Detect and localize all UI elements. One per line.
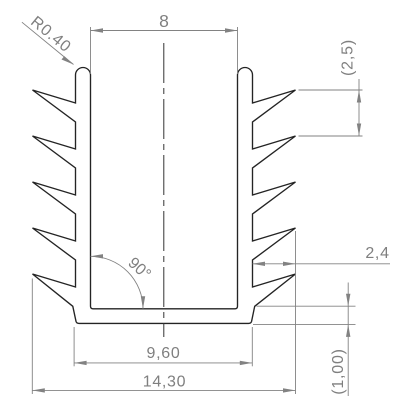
dimension (2,5) arrow down <box>357 124 361 137</box>
dimension 2,4 arrow left <box>253 262 266 266</box>
radius callout R0.40 arrow <box>62 56 74 64</box>
dimension (1,00) extension line bottom <box>253 323 356 325</box>
svg-text:9,60: 9,60 <box>147 345 181 362</box>
heatsink profile outline <box>33 68 296 324</box>
svg-text:(1,00): (1,00) <box>330 348 347 395</box>
dimension (2,5) extension line top (fin tip 1) <box>299 89 363 91</box>
angle dimension 90 arrow at floor <box>141 296 145 309</box>
dimension 8 extension line left <box>90 27 92 74</box>
radius callout R0.40 leader <box>22 22 74 64</box>
dimension 8 line <box>91 30 238 32</box>
angle dimension 90 arc <box>91 256 144 309</box>
dimension 2,4 arrow right <box>283 262 296 266</box>
svg-text:(2,5): (2,5) <box>340 39 357 76</box>
dimension 14,30 line <box>32 389 295 391</box>
dimension 9,60 arrow right <box>240 361 253 365</box>
angle dimension 90 arrow at wall <box>91 254 104 258</box>
dimension 9,60 extension line right <box>251 327 253 366</box>
svg-text:8: 8 <box>159 11 169 31</box>
dimension 9,60 line <box>74 362 252 364</box>
dimension 9,60 extension line left <box>73 327 75 366</box>
svg-text:2,4: 2,4 <box>365 245 389 262</box>
dimension (1,00) arrow up (below bottom ext) <box>346 324 350 337</box>
dimension 2,4 line <box>253 263 391 265</box>
dimension (1,00) extension line top <box>257 305 356 307</box>
dimension 9,60 arrow left <box>74 361 87 365</box>
dimension 14,30 arrow left <box>32 388 45 392</box>
dimension 8 arrow left <box>91 28 104 32</box>
dimension (1,00) line <box>347 283 349 397</box>
dimension (2,5) arrow up <box>357 90 361 103</box>
fin tip extension line right (serves 2,4 and 14,30) <box>295 231 297 394</box>
dimension (1,00) arrow down (above top ext) <box>346 294 350 307</box>
dimension (2,5) extension line bottom (fin tip 2) <box>299 135 363 137</box>
dimension 14,30 extension line left (fin tips) <box>31 279 33 395</box>
centerline (vertical symmetry axis) <box>163 43 165 337</box>
dimension (2,5) line <box>358 79 360 136</box>
dimension 14,30 arrow right <box>283 388 296 392</box>
svg-text:14,30: 14,30 <box>143 374 187 391</box>
dimension 8 extension line right <box>237 27 239 74</box>
dimension 8 arrow right <box>225 28 238 32</box>
